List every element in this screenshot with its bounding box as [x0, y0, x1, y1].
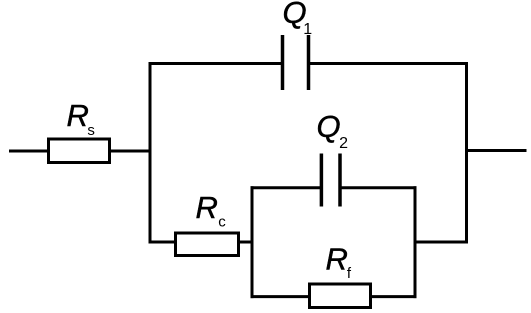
- svg-text:R: R: [196, 190, 218, 225]
- wire right lead: [467, 149, 527, 152]
- svg-text:c: c: [218, 214, 226, 231]
- wire inner bottom left segment: [251, 295, 310, 298]
- wire left vertical branch: [149, 62, 152, 244]
- svg-text:s: s: [87, 122, 95, 139]
- wire inner top left segment: [251, 186, 322, 189]
- wire Rc to inner network: [239, 241, 254, 244]
- capacitor Q2: [321, 154, 340, 207]
- label R_f: [326, 242, 352, 283]
- wire inner left vertical: [251, 186, 254, 298]
- wire top branch right segment: [309, 62, 469, 65]
- resistor R_c: [176, 233, 239, 256]
- label R_s: [67, 98, 95, 139]
- svg-text:1: 1: [303, 21, 312, 38]
- svg-text:Q: Q: [317, 109, 341, 144]
- wire right vertical branch: [465, 62, 468, 244]
- wire top branch left segment: [149, 62, 283, 65]
- wire inner right vertical: [414, 186, 417, 298]
- resistor R_s: [49, 139, 110, 163]
- svg-text:R: R: [67, 98, 89, 133]
- label Q_2: [317, 109, 349, 152]
- svg-text:2: 2: [339, 135, 348, 152]
- wire inner top right segment: [340, 186, 417, 189]
- wire inner network to right node: [415, 241, 468, 244]
- resistor R_f: [310, 284, 371, 308]
- label R_c: [196, 190, 227, 231]
- wire inner bottom right segment: [371, 295, 417, 298]
- wire Rs to left node: [110, 150, 152, 153]
- wire bottom branch to Rc: [149, 241, 176, 244]
- label Q_1: [283, 0, 313, 38]
- wire left lead: [9, 150, 48, 153]
- svg-text:R: R: [326, 242, 348, 277]
- capacitor Q1: [283, 35, 309, 90]
